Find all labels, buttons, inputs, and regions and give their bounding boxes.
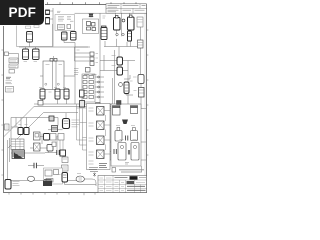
wire ladder three lines <box>75 47 91 61</box>
wire left label elbow <box>9 54 19 65</box>
rectifier module <box>83 19 99 34</box>
wire pin stubs <box>95 77 104 97</box>
battery B1 <box>114 16 121 31</box>
pin header U1 <box>82 74 95 102</box>
box above header <box>86 68 91 73</box>
wire vertical feeder x100 <box>99 13 101 104</box>
wire right horizontal y46 <box>104 41 140 47</box>
label box left column 2 <box>9 64 18 68</box>
box stack mid bottom a <box>62 157 68 163</box>
control box bottom <box>44 168 63 184</box>
label box left border <box>5 124 10 130</box>
wire center vertical x75 <box>64 40 88 104</box>
frame zone ticks left <box>1 50 3 175</box>
wire left vertical drops <box>8 138 10 180</box>
wire capacitor run y152 <box>45 144 64 157</box>
frame zone ticks top <box>48 2 137 4</box>
frame zone ticks right <box>147 30 149 155</box>
breaker dark box c <box>96 103 101 107</box>
relay bank enclosure <box>87 104 111 170</box>
aux box <box>102 26 107 33</box>
note text dark left <box>6 77 11 79</box>
contactor M2a <box>18 128 23 135</box>
capacitor C3 <box>57 150 59 155</box>
canister K1 <box>27 32 33 43</box>
wire diagonal upper <box>4 107 34 137</box>
dark relay stack <box>12 150 25 159</box>
transformer T1 X marks <box>89 14 93 18</box>
capacitor C5 <box>126 136 128 141</box>
stamp marks <box>89 168 98 177</box>
boxes under phone <box>50 134 64 141</box>
relay K7 <box>64 89 69 99</box>
small dark box above enclosure <box>49 116 54 121</box>
bank bottom marks <box>99 164 107 168</box>
scattered component labels <box>19 16 137 175</box>
box right top <box>137 17 143 27</box>
terminal grid in enclosure <box>11 139 24 150</box>
contactor M1 lower <box>117 67 123 75</box>
wire panel right edge <box>50 8 54 47</box>
inner border right <box>144 13 146 175</box>
canister C1 <box>62 32 68 40</box>
canister K2 <box>23 49 29 60</box>
dark grid box <box>52 126 58 132</box>
bank tick rows <box>89 108 94 164</box>
label box left column 3 <box>9 70 15 74</box>
wire process area <box>96 115 146 172</box>
svg-text:PDF: PDF <box>8 5 36 20</box>
vessel V1 <box>113 106 121 116</box>
relay K10 <box>124 82 129 94</box>
wire diagonal lower <box>8 113 78 148</box>
cylinder V5 <box>118 143 126 161</box>
label box left column 4 <box>6 87 14 93</box>
relay K8 <box>101 28 107 40</box>
wire bus y104 <box>34 99 112 107</box>
bottle V3 <box>115 128 122 142</box>
wire stack verticals <box>57 136 63 150</box>
frame zone ticks bottom <box>9 193 95 196</box>
bank relay R4 <box>97 150 105 159</box>
tank T2 <box>43 59 64 90</box>
bus tap box <box>38 101 43 106</box>
relay K9 <box>128 31 132 41</box>
meter P1 <box>119 83 123 87</box>
note text grey left <box>6 81 13 84</box>
bottle V4 <box>131 128 138 141</box>
contactor M1 upper <box>117 57 123 65</box>
relay box b <box>34 143 41 151</box>
canister C2 <box>71 32 77 41</box>
label box left column top <box>5 52 9 56</box>
title block <box>98 176 147 193</box>
module right border C <box>139 88 145 98</box>
junction box dark <box>117 101 122 105</box>
vessel V2 <box>131 106 138 114</box>
wire bottom run <box>11 179 96 186</box>
wire capacitor run y165 <box>28 165 44 167</box>
phone relay K12 <box>62 173 68 183</box>
breaker dark box b <box>80 101 85 108</box>
dark box mid bottom <box>60 150 66 156</box>
wire top bus y13 <box>75 12 147 14</box>
small box over cap <box>52 142 56 147</box>
wire right horizontal y108 <box>95 108 146 110</box>
contact box c <box>44 134 50 141</box>
spec box with text <box>55 15 75 31</box>
module right border A <box>138 40 144 48</box>
valve dark <box>122 120 128 125</box>
note text small <box>57 11 61 12</box>
module right border B <box>138 75 144 84</box>
label above cyl <box>70 20 74 22</box>
label AB <box>125 163 129 165</box>
relay box a <box>34 132 41 140</box>
motor M4 <box>28 176 35 181</box>
battery B2 <box>128 15 135 30</box>
small box bottom-left of vessel area <box>112 168 116 173</box>
contactor M2b <box>24 128 29 135</box>
relay K5 <box>40 89 45 99</box>
bank relay R2 <box>97 121 105 130</box>
frame border <box>4 5 147 193</box>
contact box d <box>47 145 53 152</box>
top-right drawing info table <box>106 4 147 13</box>
label plate left-b <box>34 25 39 28</box>
process enclosure right <box>111 104 141 166</box>
note text mid-low <box>72 120 80 127</box>
label box left column 1 <box>9 58 18 63</box>
U1 header labels <box>84 74 97 76</box>
label strip above title block <box>119 170 144 172</box>
capacitor C6 <box>114 149 116 154</box>
bank relay R1 <box>97 107 105 116</box>
breaker dark box a <box>80 90 85 97</box>
node junction circle <box>122 19 125 22</box>
cylinder V6 <box>131 143 139 161</box>
panel outline below badge <box>17 24 53 47</box>
chain terminal a <box>90 52 94 56</box>
tick cluster mid <box>74 69 79 75</box>
wire right column verticals <box>140 27 143 109</box>
capacitor C7 <box>128 150 129 155</box>
wire tank stubs <box>40 56 75 76</box>
bank right stubs <box>104 111 111 155</box>
wire panel bottom y47 <box>19 42 90 49</box>
terminal circles column <box>98 76 100 98</box>
phone relay K13 <box>5 180 20 190</box>
label plate left-a <box>26 26 31 29</box>
capacitor C4 <box>34 163 36 169</box>
chain terminal b <box>90 57 94 61</box>
relay K6 <box>55 89 60 99</box>
terminal block X1 upper <box>46 10 50 15</box>
pump dark <box>43 180 52 187</box>
canister K3 <box>33 49 40 60</box>
bank relay R3 <box>97 136 105 145</box>
motor M3 <box>76 176 84 182</box>
terminal block X1 lower <box>46 18 50 25</box>
wire bundle left of bank <box>77 104 87 150</box>
box stack mid bottom b <box>62 165 69 171</box>
wire phone drop <box>65 182 97 185</box>
wire under enclosure y129 <box>48 129 63 131</box>
wire process connectors <box>111 104 135 160</box>
wire battery drops <box>116 13 131 46</box>
PDF badge <box>0 0 44 25</box>
phone relay K11 <box>63 119 70 129</box>
wire enclosure interconnect <box>11 118 58 154</box>
wire M1 stubs <box>100 47 135 109</box>
node dots pair <box>116 33 124 35</box>
chain terminal c <box>90 62 94 66</box>
